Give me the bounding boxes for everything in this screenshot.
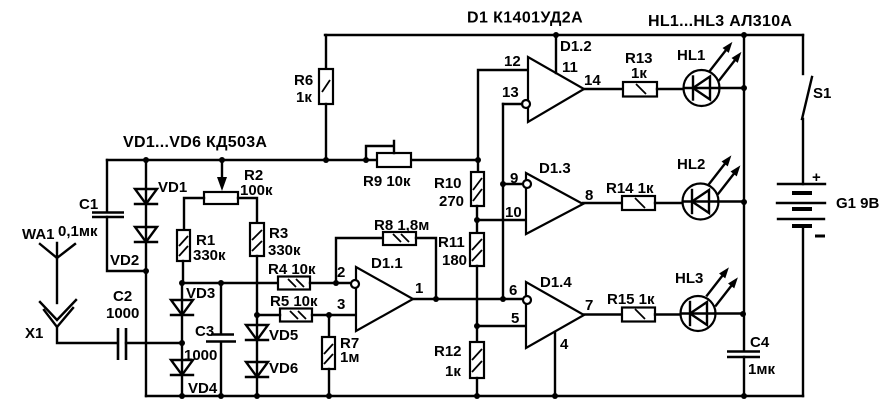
wire tap to pin 5: [477, 325, 526, 327]
node HL3 right: [740, 311, 746, 317]
wire R14 to HL2: [655, 202, 683, 204]
resistor R8: [374, 217, 429, 245]
connector X1: [25, 300, 76, 342]
wire R5 left to VD5 node: [257, 314, 280, 316]
diode VD2: [110, 227, 157, 269]
wire node A horizontal: [182, 282, 278, 284]
node feedback to output: [433, 296, 439, 302]
resistor R1: [177, 230, 226, 264]
svg-text:1000: 1000: [184, 347, 217, 364]
wire divider top to pin 12: [478, 70, 528, 160]
diode VD3: [171, 285, 215, 315]
op-amp U D1.3: [503, 160, 593, 234]
svg-text:VD1: VD1: [158, 179, 187, 196]
node HL2 right: [741, 199, 747, 205]
wire C1 bottom to VD2 bottom: [107, 217, 146, 271]
svg-text:330к: 330к: [193, 247, 226, 264]
wire bottom ground rail: [146, 395, 803, 397]
resistor R11: [438, 233, 484, 269]
LED HL2: [677, 156, 740, 220]
svg-text:C4: C4: [750, 334, 770, 351]
svg-text:R5 10к: R5 10к: [270, 293, 318, 310]
capacitor C4: [727, 334, 775, 396]
node A left: [179, 280, 185, 286]
node R9 wiper on bus: [363, 157, 369, 163]
svg-text:VD6: VD6: [269, 360, 298, 377]
wire R4 to pin2: [310, 282, 351, 284]
wire R3 bottom down to R5 node: [256, 256, 258, 315]
svg-text:100к: 100к: [240, 182, 273, 199]
potentiometer R2: [204, 160, 273, 204]
wire bias bus: [107, 159, 478, 161]
wire R13 to HL1: [657, 88, 684, 90]
wire pin7 to R15: [584, 313, 622, 315]
diode VD4: [171, 360, 218, 397]
diode VD6: [246, 360, 298, 377]
svg-text:7: 7: [585, 297, 593, 314]
svg-text:R12: R12: [434, 343, 462, 360]
svg-text:HL1: HL1: [677, 47, 705, 64]
node R7 tap: [326, 312, 332, 318]
svg-text:11: 11: [562, 59, 578, 76]
node output to comparators: [500, 296, 506, 302]
svg-text:WA1: WA1: [22, 226, 55, 243]
svg-text:6: 6: [509, 282, 517, 299]
svg-text:C2: C2: [113, 288, 132, 305]
svg-text:R10: R10: [434, 175, 462, 192]
svg-text:10: 10: [505, 204, 522, 221]
svg-text:S1: S1: [813, 85, 831, 102]
wire R10 to R11: [476, 206, 478, 233]
svg-text:14: 14: [584, 72, 601, 89]
antenna WA1: [22, 226, 75, 258]
wire VD3/VD4 branch: [181, 283, 183, 396]
svg-text:1к: 1к: [631, 65, 647, 82]
resistor R12: [434, 342, 484, 380]
node C2-VD3-VD4: [179, 340, 185, 346]
wire top positive rail: [325, 34, 803, 36]
wire D1.1 output: [413, 298, 523, 300]
svg-text:1к: 1к: [296, 89, 312, 106]
svg-text:D1.3: D1.3: [539, 160, 571, 177]
svg-text:0,1мк: 0,1мк: [58, 223, 98, 240]
svg-text:HL2: HL2: [677, 156, 705, 173]
node R6 on bus: [323, 157, 329, 163]
node tap pin5: [474, 323, 480, 329]
wire HL3 to right bus: [715, 312, 743, 314]
svg-text:R9 10к: R9 10к: [363, 173, 411, 190]
diode VD1: [135, 179, 187, 204]
node VD6 ground: [254, 393, 260, 399]
wire pin8 to R14: [583, 202, 622, 204]
svg-text:4: 4: [560, 336, 569, 353]
wire VD5/VD6 branch: [256, 315, 258, 396]
wire R8 right down to output: [416, 238, 436, 299]
diode VD5: [246, 325, 298, 344]
LED HL1: [677, 43, 741, 106]
wire pin4 to ground: [554, 332, 556, 396]
wire R11 to R12: [476, 266, 478, 342]
LED HL3: [675, 269, 737, 332]
svg-text:HL3: HL3: [675, 270, 703, 287]
resistor R15: [607, 291, 655, 322]
node C3 top: [218, 280, 224, 286]
svg-text:VD5: VD5: [269, 327, 298, 344]
svg-text:R15 1к: R15 1к: [607, 291, 655, 308]
wire HL2 to right bus: [718, 200, 744, 202]
svg-text:X1: X1: [25, 325, 43, 342]
wire VD1/VD2 branch: [145, 160, 147, 396]
node divider top: [475, 157, 481, 163]
wire R15 to HL3: [655, 313, 681, 315]
svg-text:R3: R3: [269, 225, 288, 242]
svg-text:1к: 1к: [445, 363, 461, 380]
resistor R14: [606, 180, 655, 210]
svg-text:1000: 1000: [106, 305, 139, 322]
svg-text:G1 9В: G1 9В: [836, 195, 880, 212]
op-amp U D1.1: [337, 255, 423, 331]
node pin11 on rail: [553, 32, 559, 38]
resistor R6: [294, 35, 333, 160]
svg-text:VD2: VD2: [110, 252, 139, 269]
resistor R7: [322, 315, 359, 396]
svg-text:R4 10к: R4 10к: [268, 261, 316, 278]
node R3/R5/VD5: [254, 312, 260, 318]
svg-text:R11: R11: [438, 234, 465, 251]
svg-text:VD1...VD6 КД503А: VD1...VD6 КД503А: [123, 134, 267, 151]
svg-text:330к: 330к: [268, 242, 301, 259]
svg-text:1мк: 1мк: [748, 361, 775, 378]
wire R2 right to R3: [238, 198, 257, 223]
wire tap to pin 10: [477, 219, 526, 221]
resistor R5: [270, 293, 318, 322]
op-amp U D1.4: [509, 274, 593, 353]
wire pins 13-9-6 vertical: [502, 104, 504, 299]
node pin4 ground: [552, 393, 558, 399]
resistor R3: [250, 223, 301, 259]
svg-text:12: 12: [504, 53, 521, 70]
node pin9 tap: [500, 181, 506, 187]
wire R2 left to R1: [184, 198, 204, 230]
svg-text:8: 8: [585, 187, 593, 204]
svg-text:1м: 1м: [340, 349, 359, 366]
wire LED cathode bus: [743, 35, 745, 351]
resistor R10: [434, 160, 484, 210]
svg-text:D1.2: D1.2: [560, 38, 592, 55]
op-amp U D1.2: [502, 35, 601, 122]
svg-text:D1.4: D1.4: [540, 274, 572, 291]
capacitor C2: [106, 288, 139, 360]
node R12 ground: [474, 393, 480, 399]
wire X1 down and right to C2: [57, 327, 117, 343]
svg-text:3: 3: [337, 296, 345, 313]
svg-text:VD3: VD3: [186, 285, 215, 302]
node cathode bus top: [741, 32, 747, 38]
switch S1: [802, 35, 831, 119]
capacitor C3: [184, 283, 236, 396]
svg-text:9: 9: [510, 170, 518, 187]
svg-text:R14 1к: R14 1к: [606, 180, 654, 197]
node VD4 ground: [179, 393, 185, 399]
svg-text:R8 1,8м: R8 1,8м: [374, 217, 429, 234]
node tap pin10: [474, 217, 480, 223]
wire pin14 to R13: [584, 88, 623, 90]
svg-text:1: 1: [415, 280, 423, 297]
node HL1 right: [741, 85, 747, 91]
node C4 ground: [741, 393, 747, 399]
node feedback tap: [333, 280, 339, 286]
node C3 ground: [218, 393, 224, 399]
svg-text:HL1...HL3 АЛ310А: HL1...HL3 АЛ310А: [648, 13, 792, 30]
wire HL1 to right bus: [719, 87, 744, 89]
node R7 ground: [326, 393, 332, 399]
node R2 arrow on bus: [219, 157, 225, 163]
wire R1 bottom to node A: [182, 261, 184, 283]
wire C2 to VD3/VD4 node: [126, 342, 182, 344]
svg-text:C1: C1: [79, 196, 98, 213]
svg-text:5: 5: [511, 310, 519, 327]
resistor R4: [268, 261, 316, 290]
svg-text:+: +: [812, 169, 821, 186]
svg-text:2: 2: [337, 264, 345, 281]
capacitor C1: [58, 196, 124, 240]
svg-text:VD4: VD4: [188, 380, 218, 397]
resistor R13: [623, 50, 657, 97]
svg-text:270: 270: [439, 193, 464, 210]
svg-text:13: 13: [502, 84, 519, 101]
wire bus corner down to C1: [106, 160, 108, 212]
svg-text:R6: R6: [294, 72, 313, 89]
wire feedback up/left: [336, 238, 383, 283]
svg-text:C3: C3: [195, 323, 214, 340]
wire R5 right to pin3: [312, 314, 356, 316]
node VD2 bottom: [143, 268, 149, 274]
svg-text:D1 К1401УД2А: D1 К1401УД2А: [467, 10, 583, 27]
wire antenna to X1: [56, 258, 58, 303]
svg-text:180: 180: [442, 252, 467, 269]
wire R12 to ground: [476, 378, 478, 396]
svg-text:D1.1: D1.1: [371, 255, 403, 272]
node VD1 top on bus: [143, 157, 149, 163]
battery G1: [777, 119, 880, 396]
resistor R9 trimmer: [363, 141, 411, 190]
